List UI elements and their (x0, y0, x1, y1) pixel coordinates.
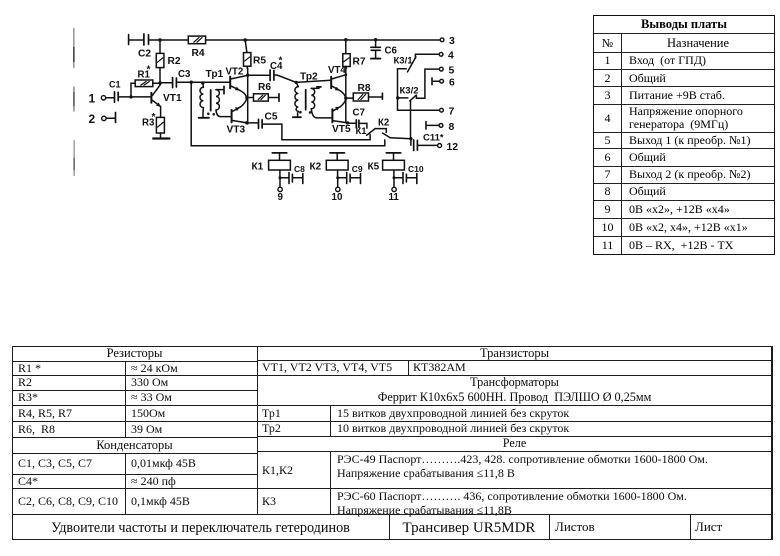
relay coil K1 (252, 153, 306, 203)
wire (296, 80, 331, 82)
capacitor C6 (371, 40, 398, 59)
node rail-C6 (374, 38, 377, 41)
transistor VT5 (332, 99, 351, 135)
wire (191, 82, 385, 146)
wire (247, 68, 249, 124)
transformer Tp1 core (210, 90, 212, 111)
wire (262, 124, 282, 140)
node emitter junction 2 (344, 96, 347, 99)
resistor R5 (244, 40, 267, 68)
transistor VT3 (227, 98, 247, 135)
node 5 (terminal) (439, 65, 454, 76)
transformer Tp1 secondary (216, 86, 231, 116)
relay coil K2 (310, 153, 363, 203)
resistor R6 (247, 82, 279, 101)
resistor R2 (156, 40, 181, 83)
wire (398, 109, 440, 111)
page edge mark (73, 140, 75, 176)
relay contact K3/1 (394, 54, 416, 72)
node 7 (terminal) (440, 107, 455, 118)
page edge mark (73, 87, 75, 112)
capacitor C7 (348, 108, 365, 128)
transformer Tp2 core (305, 90, 307, 110)
ground (153, 137, 169, 139)
transformer Tp1 primary (199, 69, 224, 118)
node 1 (input terminal) (89, 92, 106, 106)
capacitor C4 (248, 56, 296, 83)
wire (282, 134, 370, 139)
capacitor C5 (247, 112, 278, 129)
wire (106, 97, 114, 99)
resistor R4 (188, 36, 205, 59)
node K3/2 pivot (396, 96, 408, 99)
wire (345, 67, 347, 123)
capacitor C3 (160, 69, 191, 88)
resistor R1 (129, 65, 160, 99)
wire (149, 39, 189, 41)
node VT5-C7 (346, 121, 349, 124)
wire (415, 53, 439, 55)
resistor R3 (142, 107, 164, 138)
node rail-R2 (158, 38, 161, 41)
node 2 (terminal) (89, 112, 107, 126)
wire (359, 123, 367, 128)
capacitor C1 (109, 80, 121, 103)
node 6 (terminal) (432, 78, 455, 89)
capacitor C2 (138, 34, 151, 60)
wire (425, 69, 439, 98)
page edge mark (73, 28, 75, 68)
node 12 (terminal) (438, 142, 459, 153)
node output junction (409, 137, 412, 140)
node emitter junction 1 (245, 96, 248, 99)
transformer Tp2 primary (293, 72, 318, 118)
transistor VT4 (328, 65, 346, 98)
node 3 (terminal) (440, 36, 455, 47)
node Tp1 phase dots (207, 113, 215, 116)
wire (410, 101, 412, 139)
node Tp2 phase dots (299, 111, 311, 114)
relay coil K3 (K5) (368, 153, 424, 203)
transformer Tp2 secondary (311, 87, 331, 118)
transistor VT1 (151, 84, 182, 106)
node VT3-C5 (245, 121, 248, 124)
relay contact K1 (356, 126, 387, 137)
resistor R7 (343, 40, 366, 68)
node C4-Tp2 (295, 81, 298, 84)
node 8 (terminal) (426, 122, 455, 133)
wire (106, 113, 115, 123)
node rail-R7 (344, 38, 347, 41)
capacitor C11 (411, 133, 444, 151)
node 4 (terminal) (439, 51, 454, 62)
wire (118, 96, 151, 98)
node VT4 collector (344, 73, 347, 76)
relay contact K3/2 (400, 86, 425, 101)
wire (206, 39, 441, 41)
node R5-C4 (246, 74, 249, 77)
resistor R8 (346, 83, 383, 101)
transistor VT2 (226, 67, 248, 98)
node C3-Tp1 (190, 81, 193, 84)
wire (177, 81, 230, 83)
relay contact K2 (378, 118, 411, 139)
node rail-R5 (244, 38, 247, 41)
node VT1 collector (158, 81, 161, 84)
wire (129, 35, 144, 45)
wire (398, 69, 407, 110)
